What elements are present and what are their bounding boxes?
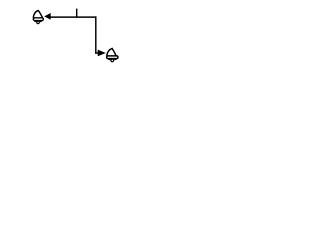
wire vertical [95, 16, 97, 53]
bell symbol left: dome [33, 11, 42, 18]
bell symbol left: brim band [33, 18, 43, 21]
wire horizontal top [51, 16, 97, 18]
bell symbol right: clapper V [108, 59, 117, 60]
arrowhead into left bell [44, 13, 51, 20]
bell symbol left: clapper V [34, 21, 41, 22]
arrowhead into right bell [98, 50, 106, 57]
tick stub on top wire [76, 9, 78, 18]
bell symbol left: clapper knob [37, 21, 40, 24]
bell symbol right: dome [107, 48, 117, 56]
wire horizontal bottom stub [95, 52, 98, 54]
bell symbol right: clapper knob [111, 59, 114, 62]
bell symbol right: brim band [107, 56, 118, 59]
